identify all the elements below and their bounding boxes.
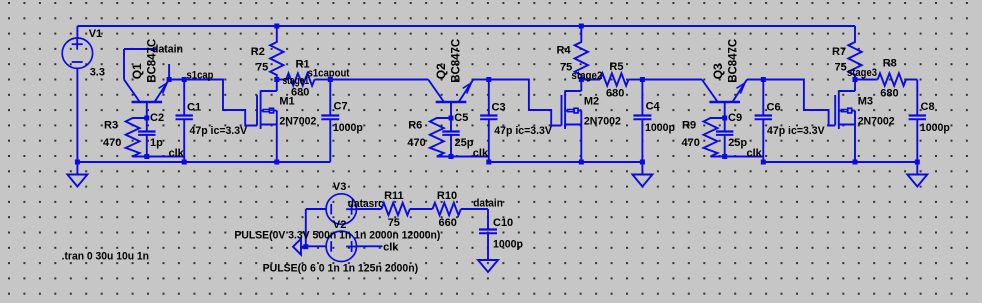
svg-text:25p: 25p [728,137,747,149]
svg-text:1000p: 1000p [333,122,363,134]
capacitor C5 25p [442,112,473,157]
svg-text:datasrc: datasrc [348,198,384,210]
capacitor C3 47p [480,80,552,163]
junction C6 / clk / rail stage3 [761,160,766,165]
svg-text:C6: C6 [767,101,781,113]
transistor M1 2N7002 [257,80,316,163]
transistor M3 2N7002 [835,80,895,163]
transistor Q3 BC847C [702,38,747,118]
wire stage2 out to Q3 collector [642,79,702,81]
svg-text:C9: C9 [728,112,742,124]
svg-text:2N7002: 2N7002 [858,116,895,128]
svg-text:R3: R3 [104,120,118,132]
junction M1 source / rail [274,160,279,165]
wire s1capout to Q2 collector [330,79,428,81]
svg-text:1p: 1p [150,137,163,149]
svg-text:Q1: Q1 [130,63,144,79]
wire clk stub stage2 [451,147,489,159]
wire stub above emitter node [168,64,170,80]
capacitor C2 1p [138,112,164,157]
svg-text:R7: R7 [832,46,846,58]
svg-text:R5: R5 [609,61,623,73]
node s1cap label [187,69,214,81]
junction s1cap / C1 [182,77,187,82]
resistor R9 470 [682,118,725,157]
svg-text:47p ic=3.3V: 47p ic=3.3V [494,125,552,137]
resistor R1 680 [286,59,314,99]
wire s3cap to M3 gate [763,80,835,126]
svg-text:stage3: stage3 [847,67,877,79]
svg-text:clk: clk [747,147,763,159]
junction stage1 node [274,77,279,82]
node stage2 label [571,70,602,82]
svg-text:2N7002: 2N7002 [279,116,316,128]
svg-text:PULSE(0 6 0 1n 1n 125n 2000n): PULSE(0 6 0 1n 1n 125n 2000n) [263,263,419,275]
junction R3 / C2 / clk stub [144,154,149,159]
node datain label [152,44,183,56]
junction Q1 emitter / s1cap [167,77,172,82]
svg-text:Q3: Q3 [711,63,725,79]
voltage source V3 PULSE datasrc [326,181,357,224]
node stage1 label [283,75,310,87]
svg-text:470: 470 [682,137,700,149]
wire Q2 emitter to C3 node [473,79,489,81]
wire V2 plus to clk [356,245,382,247]
junction Q2 base / R6 / C5 [449,116,454,121]
transistor Q1 BC847C [124,38,169,118]
resistor R6 470 [407,118,451,157]
svg-text:C7: C7 [334,100,348,112]
svg-text:1000p: 1000p [920,122,950,134]
svg-text:680: 680 [606,88,624,100]
svg-text:660: 660 [439,217,457,229]
svg-text:R6: R6 [408,120,422,132]
wire R5 to C4 node [629,79,643,81]
svg-text:C1: C1 [187,101,201,113]
svg-text:75: 75 [388,217,400,229]
resistor R5 680 [600,61,628,100]
resistor R8 680 [878,58,906,100]
transistor M2 2N7002 [562,80,621,163]
ground stage2 [632,162,652,187]
wire clk stub stage1 [147,147,185,159]
svg-text:stage1: stage1 [283,75,310,87]
svg-text:s1cap: s1cap [187,69,214,81]
node stage3 label [847,67,877,79]
svg-text:R2: R2 [251,46,265,58]
svg-text:PULSE(0V 3.3V 500n 1n 1n 2000n: PULSE(0V 3.3V 500n 1n 1n 2000n 12000n) [234,230,440,242]
ground (rotated) at sources [293,239,306,255]
node clk label (bottom) [383,242,399,254]
resistor R7 75 [832,26,862,80]
junction s1capout / C7 [328,77,333,82]
wire R8 to C8 [906,79,917,81]
capacitor C8 1000p [909,80,951,163]
wire V3 plus to R11 [356,208,381,210]
svg-text:2N7002: 2N7002 [584,116,621,128]
svg-text:.tran 0 30u 10u 1n: .tran 0 30u 10u 1n [62,251,150,263]
wire stage1 node to R1 [277,79,286,81]
wire V2 minus to junction [306,245,327,247]
svg-text:470: 470 [407,137,425,149]
svg-text:M2: M2 [584,95,599,107]
wire s1cap to M1 gate [169,80,257,126]
junction top rail / R2 [274,24,279,29]
svg-text:3.3: 3.3 [90,67,105,79]
junction stage2 node [579,77,584,82]
junction M2 source / rail [579,160,584,165]
svg-text:R11: R11 [384,190,404,202]
node datasrc label [348,198,384,210]
svg-text:470: 470 [103,137,121,149]
capacitor C9 25p [716,112,747,157]
svg-text:C10: C10 [493,217,513,229]
node s1capout label [308,68,350,80]
resistor R4 75 [557,26,589,80]
junction s2cap / C3 [486,77,491,82]
junction R6 / C5 / clk stub [449,154,454,159]
svg-text:R8: R8 [883,58,897,70]
svg-text:datain: datain [473,197,503,209]
svg-text:47p ic=3.3V: 47p ic=3.3V [767,125,825,137]
wire stage2 bottom rail [489,161,643,163]
capacitor C4 1000p [633,80,675,163]
wire R10 to datain node [461,208,488,210]
capacitor C6 47p [755,80,826,163]
svg-text:clk: clk [383,242,399,254]
wire stage3 bottom rail [763,161,917,163]
svg-text:C3: C3 [492,101,506,113]
capacitor C1 47p [176,80,248,163]
ground stage3 [907,162,927,187]
svg-text:680: 680 [880,88,898,100]
svg-text:Q2: Q2 [434,63,448,79]
wire s2cap to M2 gate [489,80,562,126]
junction stage3 node [853,77,858,82]
junction C3 / clk / rail stage2 [486,160,491,165]
transistor Q2 BC847C [428,38,473,118]
wire stage1 bottom rail [77,161,330,163]
svg-text:R4: R4 [557,45,572,57]
svg-text:C5: C5 [454,112,468,124]
svg-text:BC847C: BC847C [449,38,463,82]
capacitor C10 1000p [479,209,523,260]
wire clk stub stage3 [725,147,764,159]
wire Q3 emitter to C6 node [747,79,763,81]
voltage source V2 PULSE clk [326,219,357,262]
svg-text:M3: M3 [858,95,873,107]
junction V3 / V2 / ground [303,244,308,249]
node datain label (bottom) [473,197,503,209]
wire V3 minus to junction [306,209,327,247]
svg-text:1000p: 1000p [645,122,675,134]
text .tran directive [62,251,150,263]
wire top supply rail [77,25,855,27]
text PULSE V3 value [234,230,440,242]
svg-text:M1: M1 [279,95,294,107]
wire stage3 node to R8 [855,79,878,81]
svg-text:clk: clk [169,147,185,159]
svg-text:C2: C2 [150,112,164,124]
svg-text:75: 75 [256,62,268,74]
junction Q3 base / R9 / C9 [722,116,727,121]
junction stage2 out / C4 [640,77,645,82]
svg-text:BC847C: BC847C [725,38,739,82]
resistor R2 75 [251,26,284,80]
wire datain (input to Q1 collector) [124,49,157,80]
svg-text:25p: 25p [455,137,474,149]
svg-text:C8: C8 [921,101,935,113]
junction M3 source / rail [853,160,858,165]
junction Q1 base / R3 / C2 [144,116,149,121]
junction C8 / rail / ground [915,160,920,165]
ground stage1 [67,162,87,187]
svg-text:V1: V1 [89,28,102,40]
text PULSE V2 value [263,263,419,275]
resistor R10 660 [433,190,461,229]
voltage source V1 3.3 [62,26,105,162]
wire R1 to s1capout node [315,79,331,81]
junction clk / C1 / rail [182,160,187,165]
resistor R11 75 [381,190,409,229]
svg-text:BC847C: BC847C [145,38,159,82]
svg-text:C4: C4 [646,100,661,112]
wire R11 to R10 [410,208,433,210]
svg-text:stage2: stage2 [571,70,602,82]
junction V1 / rail / ground [75,160,80,165]
svg-text:clk: clk [473,147,489,159]
svg-text:V3: V3 [333,181,346,193]
svg-text:47p ic=3.3V: 47p ic=3.3V [190,125,248,137]
resistor R3 470 [103,118,147,157]
junction R9 / C9 / clk stub [722,154,727,159]
svg-text:75: 75 [835,62,847,74]
junction s3cap / C6 [761,77,766,82]
svg-text:1000p: 1000p [493,239,523,251]
junction top rail / R4 [579,24,584,29]
junction C4 / rail / ground [640,160,645,165]
capacitor C7 1000p [321,80,363,163]
svg-text:R10: R10 [437,190,457,202]
ground at C10 [478,260,498,272]
svg-text:R9: R9 [682,120,696,132]
wire stage2 node to R5 [581,79,600,81]
